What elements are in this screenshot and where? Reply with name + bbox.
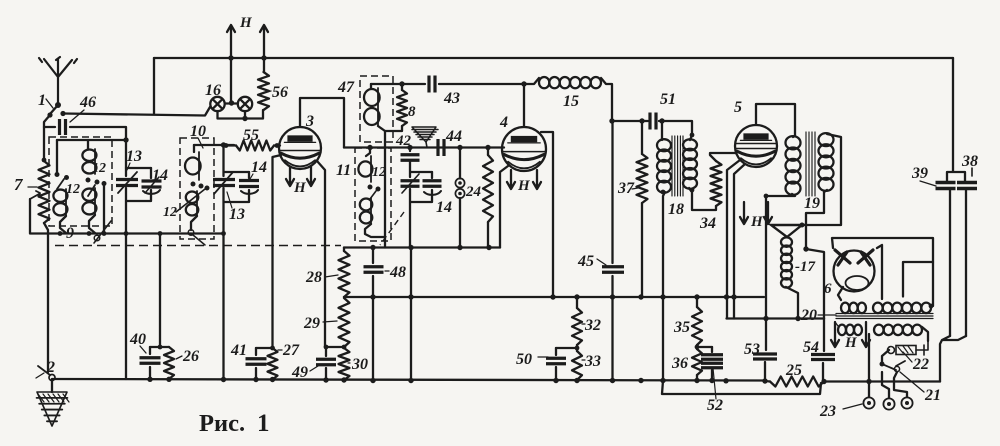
coil 12b: [94, 149, 96, 174]
capacitor 46: [60, 119, 66, 135]
tube3 cathode lead: [273, 155, 282, 347]
gang diag dashed: [380, 212, 404, 245]
coil 12d switch: [191, 182, 196, 187]
plug wire 3: [894, 372, 907, 397]
capacitor 53: [765, 319, 767, 351]
caps 38 39 bottom leads: [950, 189, 966, 336]
svg-text:25: 25: [785, 362, 802, 379]
svg-text:-17: -17: [795, 259, 815, 275]
coil 12g bottom: [365, 148, 385, 237]
svg-text:3: 3: [305, 113, 314, 130]
svg-text:26: 26: [182, 348, 199, 365]
capacitor 50: [555, 348, 557, 355]
resistor 34: [711, 161, 722, 206]
svg-text:29: 29: [303, 315, 320, 332]
tube6 cathode ellipse: [846, 276, 869, 290]
svg-text:12: 12: [163, 205, 177, 220]
resistor 35: [696, 297, 698, 307]
bus 296: [344, 296, 764, 298]
band lever box10: [176, 189, 205, 212]
svg-text:6: 6: [824, 281, 832, 297]
tube4 screen wire: [541, 132, 553, 297]
svg-text:H: H: [239, 15, 253, 31]
capacitor 44: [438, 139, 444, 156]
trimmer cap 13c: [401, 181, 420, 187]
bottom bus right: [824, 380, 940, 382]
wire x224 to bus: [222, 234, 224, 380]
rail left tuned: [30, 232, 223, 234]
tube4 grid entry: [502, 146, 504, 148]
grid resistor tube4: [487, 148, 489, 156]
wire x663 down: [662, 297, 664, 381]
coil 12f: [370, 156, 372, 182]
resistor 26: [164, 347, 174, 379]
leader label 1: [46, 99, 53, 108]
wire osc top: [371, 83, 425, 85]
t20 arrow left: [831, 322, 839, 347]
svg-text:15: 15: [563, 93, 579, 110]
tube5 cathode wires: [727, 160, 745, 319]
svg-text:4: 4: [499, 114, 508, 131]
variable capacitor 14a: [150, 168, 152, 178]
coil 12b hook: [87, 140, 89, 149]
svg-text:13: 13: [229, 206, 245, 223]
t18 sec bottom wire: [689, 188, 716, 210]
bottom bus left: [52, 379, 765, 381]
svg-text:56: 56: [272, 84, 288, 101]
wire box11 to midrail: [384, 237, 386, 248]
tube4 filament arrow left: [507, 170, 515, 189]
wire cap46 to tank: [70, 127, 126, 140]
svg-text:19: 19: [804, 195, 820, 212]
t20 lower winding b: [874, 325, 884, 336]
transformer 20 core: [836, 314, 933, 319]
resistor 8: [397, 90, 407, 126]
rc node 40 26: [150, 346, 169, 348]
variable capacitor 14b: [248, 172, 250, 178]
svg-text:47: 47: [337, 79, 355, 96]
resistor 32: [576, 297, 578, 308]
variable capacitor 13a: [116, 180, 138, 186]
plug 23a: [863, 397, 874, 408]
pot 7 wiper arrow: [30, 191, 40, 199]
tube5 filament arrow right: [764, 202, 772, 224]
tube 3: [279, 127, 321, 169]
var caps 13b/14b join: [224, 188, 250, 234]
capacitor 54: [823, 319, 825, 352]
tube4 filament arrow right: [533, 170, 541, 189]
variable capacitor 13b: [213, 180, 235, 186]
tube 4: [502, 127, 546, 171]
earth ground: [37, 392, 67, 426]
wire x126 tank: [125, 140, 127, 168]
svg-text:2: 2: [46, 359, 55, 376]
transformer 18 primary: [657, 139, 671, 151]
wire x411 down: [410, 248, 412, 381]
transformer 19 core: [806, 132, 815, 196]
tube4 cathode wire: [500, 166, 508, 248]
coil 12f switch: [368, 185, 373, 190]
trimmer cap 14c: [431, 172, 433, 178]
capacitor 48: [372, 248, 374, 264]
svg-text:5: 5: [734, 99, 742, 116]
oscillator coil: [377, 88, 379, 126]
transformer 18 secondary: [683, 139, 697, 150]
svg-text:1: 1: [38, 92, 46, 109]
wire between lamps: [225, 102, 238, 104]
ground lead: [51, 381, 53, 393]
wire t18 primary top: [661, 121, 663, 140]
svg-text:12: 12: [66, 182, 80, 197]
osc coil bottom: [378, 126, 385, 131]
wire antenna to lamps: [63, 107, 210, 116]
svg-text:32: 32: [584, 317, 601, 334]
tube4 anode wire: [523, 84, 525, 127]
tube5 filament arrow left: [740, 202, 748, 224]
svg-text:12: 12: [92, 161, 106, 176]
tap 35 36: [697, 346, 712, 348]
svg-text:28: 28: [305, 269, 322, 286]
wire x460: [459, 148, 461, 248]
tube6 filament lead: [838, 287, 843, 300]
box 47 dashed: [360, 76, 393, 142]
node top-left corner: [153, 58, 155, 114]
res8 coil join: [385, 126, 402, 148]
resistor 56: [258, 72, 269, 110]
plug 23b: [883, 398, 894, 409]
capacitor 42: [409, 148, 411, 152]
svg-text:11: 11: [336, 162, 351, 179]
wire bus to lamps: [230, 58, 232, 102]
svg-text:46: 46: [79, 94, 96, 111]
svg-text:H: H: [750, 214, 764, 230]
tube3 filament arrow right: [307, 167, 315, 186]
svg-text:27: 27: [282, 342, 300, 359]
t20 arrow right: [862, 322, 870, 347]
box 10 dashed: [180, 138, 214, 239]
t5 grid wire: [710, 153, 736, 161]
capacitor 38: [957, 183, 977, 189]
resistor 27: [268, 348, 278, 380]
wire y318: [727, 317, 825, 319]
svg-text:13: 13: [126, 148, 142, 165]
wire x160 down: [159, 234, 161, 348]
svg-text:16: 16: [205, 82, 221, 99]
svg-text:39: 39: [911, 165, 928, 182]
coil 12d: [198, 152, 200, 180]
wire grid line: [344, 146, 502, 148]
leader 7: [28, 186, 37, 188]
svg-text:50: 50: [516, 351, 532, 368]
t18 primary bottom: [663, 192, 665, 297]
svg-text:14: 14: [152, 167, 168, 184]
wire lamp bottoms: [218, 110, 264, 119]
svg-text:1: 1: [257, 410, 270, 437]
svg-text:54: 54: [803, 339, 819, 356]
lamp16b bottom lead: [244, 111, 246, 119]
wire 51 to t18: [659, 121, 692, 135]
svg-text:41: 41: [230, 342, 247, 359]
svg-text:20: 20: [800, 307, 817, 324]
svg-text:40: 40: [129, 331, 146, 348]
potentiometer 7: [39, 161, 50, 223]
resistor 36: [692, 349, 702, 375]
resistor 33: [572, 351, 582, 380]
resistor 30: [339, 348, 350, 380]
t20 upper winding a: [841, 303, 849, 314]
speaker coil 17: [781, 237, 792, 246]
band lever box10 lower: [193, 235, 205, 245]
svg-text:30: 30: [351, 356, 368, 373]
lamp 16b: [238, 97, 252, 111]
tube6 right anode X: [858, 250, 873, 265]
tube3 filament arrow left: [286, 167, 294, 186]
svg-text:44: 44: [445, 128, 462, 145]
svg-text:38: 38: [961, 153, 978, 170]
t19 sec bottom wire: [806, 190, 827, 249]
resistor 29: [339, 298, 350, 347]
coil 12f top: [366, 148, 370, 157]
plug 23c: [901, 397, 912, 408]
resistor 28: [339, 251, 350, 297]
resistor 25: [770, 377, 824, 387]
svg-text:45: 45: [577, 253, 594, 270]
switch 1 contact: [55, 102, 61, 108]
svg-text:H: H: [517, 178, 531, 194]
wire 43 to tube4: [439, 83, 524, 85]
capacitor 49: [325, 347, 327, 356]
t20 upper right lead: [929, 304, 934, 309]
gang linkage dashed: [55, 245, 341, 247]
tube 6: [834, 251, 875, 292]
capacitor 45: [611, 121, 613, 263]
svg-text:51: 51: [660, 91, 676, 108]
filament arrow H left: [227, 25, 235, 58]
var cap 13a branch: [126, 168, 151, 176]
svg-text:52: 52: [707, 397, 723, 414]
svg-text:33: 33: [584, 353, 601, 370]
wire x126 to bus: [125, 234, 127, 380]
tube6 left anode X: [835, 250, 850, 265]
svg-text:42: 42: [395, 133, 412, 149]
coil 12a: [65, 189, 67, 216]
switch 1 lever: [50, 105, 58, 114]
coil 12a bottom: [60, 216, 66, 233]
coil 15: [524, 78, 539, 84]
pot 7 wiper wire: [29, 199, 31, 233]
svg-text:18: 18: [668, 201, 684, 218]
svg-text:8: 8: [408, 104, 416, 120]
svg-text:35: 35: [673, 319, 690, 336]
coil 12d top: [193, 145, 195, 152]
coil 12g: [370, 198, 372, 224]
wire bus to res56: [263, 58, 265, 72]
capacitor 43: [429, 76, 435, 93]
tube 5: [735, 125, 777, 167]
svg-text:H: H: [844, 335, 858, 351]
band lever box9: [94, 221, 111, 243]
coil 12e: [196, 191, 198, 216]
transformer 18 core: [672, 136, 683, 196]
var cap 13b branch: [224, 145, 250, 176]
coil 12b switch: [86, 178, 91, 183]
svg-text:14: 14: [251, 159, 267, 176]
capacitor 52: [711, 347, 713, 352]
svg-text:53: 53: [744, 341, 760, 358]
speaker horn: [771, 225, 802, 237]
plug wire 1: [868, 334, 870, 397]
box 11 dashed: [355, 148, 391, 241]
wire bus to caps 38 39: [947, 58, 965, 181]
t20 lower winding a: [838, 325, 846, 336]
svg-text:H: H: [293, 180, 307, 196]
capacitor 40: [149, 347, 151, 354]
svg-text:22: 22: [912, 356, 929, 373]
resistor 55: [236, 141, 274, 151]
wire top bus: [154, 57, 953, 59]
tube5 anode wire: [756, 104, 795, 136]
osc coil top lead: [370, 84, 372, 88]
filament arrow H right: [260, 25, 268, 58]
left rail to gnd switch: [44, 223, 48, 372]
wire box10 top to grid wire: [194, 144, 234, 146]
capacitor 51: [650, 113, 656, 130]
trim branch: [410, 161, 432, 177]
mid rail left drop: [343, 248, 345, 252]
var caps 13a/14a join: [126, 188, 151, 234]
bus dots left: [147, 377, 152, 382]
mid rail y247: [344, 246, 500, 248]
lamp 16a: [210, 97, 224, 111]
tap 29 30: [326, 346, 344, 348]
t19 primary bottom: [766, 194, 795, 319]
box 9 dashed: [49, 137, 112, 226]
tube3 grid lead: [274, 144, 280, 146]
wire 12c switch down: [103, 185, 105, 233]
speaker coil bottom: [786, 287, 798, 319]
antenna: [39, 57, 77, 104]
caps return bends: [940, 336, 966, 382]
fuse 22: [922, 327, 928, 341]
svg-text:7: 7: [14, 175, 24, 194]
tube3 screen lead: [317, 161, 325, 347]
tube6 right plate wire: [877, 245, 882, 299]
tube6 plate top wire: [832, 238, 933, 306]
wire y121: [612, 120, 645, 122]
leader 46: [70, 110, 84, 122]
coil 12e bottom: [191, 216, 197, 230]
svg-text:Рис.: Рис.: [199, 410, 245, 437]
capacitor 39: [936, 183, 956, 189]
switch 2: [49, 375, 55, 381]
svg-text:36: 36: [671, 355, 688, 372]
svg-text:23: 23: [819, 403, 836, 420]
svg-text:21: 21: [924, 387, 941, 404]
second bottom rail: [662, 381, 821, 395]
rc node 41 27: [256, 347, 273, 349]
hv winding right loop: [903, 262, 933, 297]
switch 21: [882, 350, 889, 363]
transformer 19 primary: [786, 136, 801, 149]
capacitor 41: [255, 348, 257, 355]
svg-text:48: 48: [389, 264, 406, 281]
svg-text:14: 14: [436, 199, 452, 216]
svg-text:24: 24: [465, 184, 482, 200]
trim join: [410, 189, 432, 248]
resistor 37: [641, 121, 643, 154]
coil 12c: [94, 188, 96, 215]
ground 42: [412, 127, 436, 142]
tube3 anode wire: [300, 98, 344, 148]
wire 806 to cap54: [806, 249, 824, 319]
pot 7 top lead: [43, 127, 45, 161]
coil 12a switch: [56, 140, 58, 173]
transformer 19 secondary: [819, 133, 834, 146]
coil 12c bottom: [89, 215, 95, 233]
tap 32 33: [556, 347, 577, 349]
svg-text:34: 34: [699, 215, 716, 232]
t20 upper winding b: [873, 303, 883, 314]
t19 sec top wire: [802, 134, 841, 225]
svg-text:43: 43: [443, 90, 460, 107]
plug wire 2: [882, 372, 889, 398]
svg-text:55: 55: [243, 127, 259, 144]
jack 24: [455, 178, 464, 187]
wire switch to cap46: [44, 115, 55, 127]
coil 12a top rail: [57, 139, 126, 141]
